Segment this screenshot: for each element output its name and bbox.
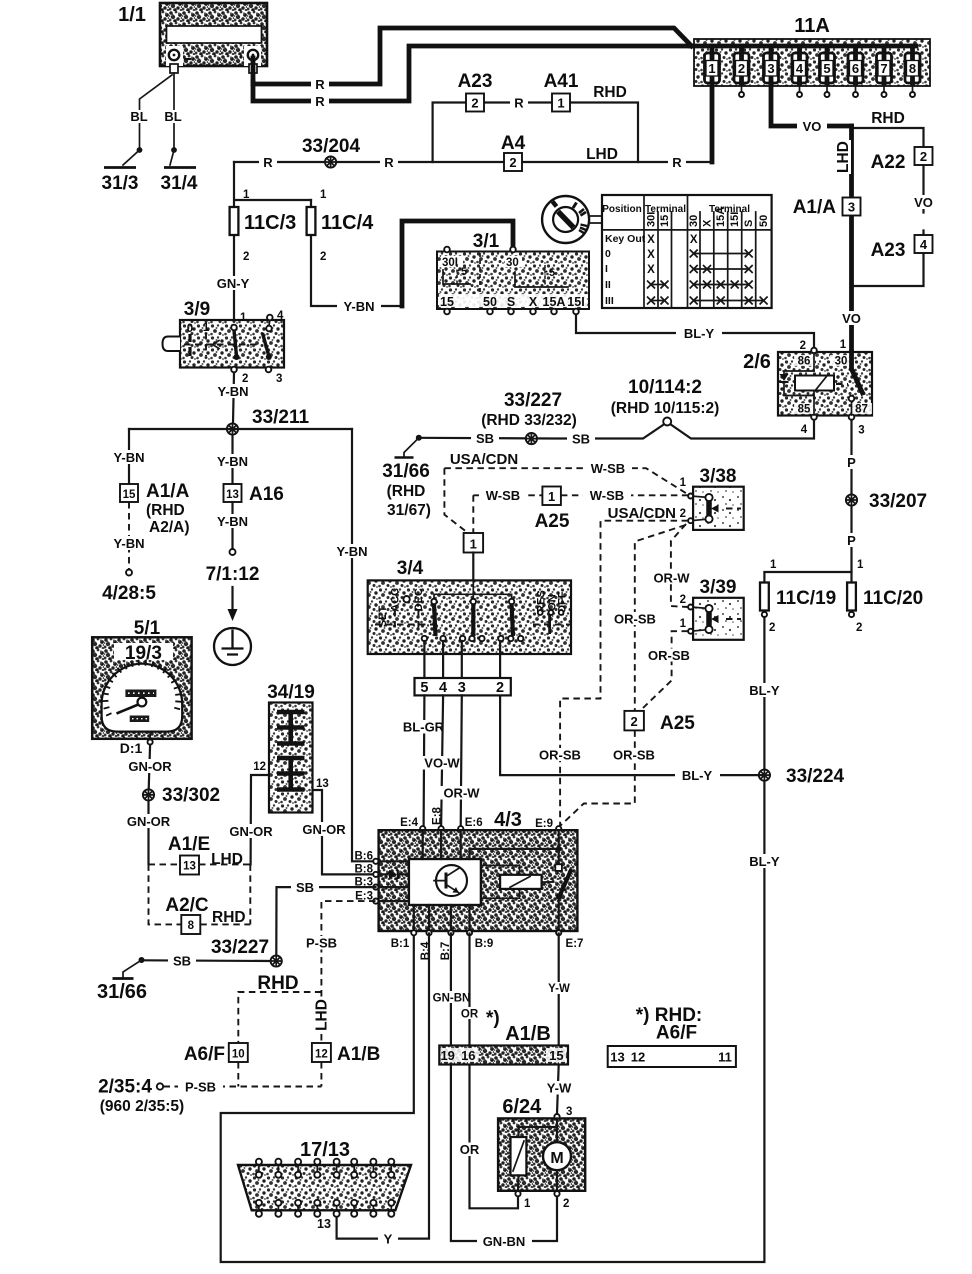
svg-text:A1/A: A1/A [793,197,837,218]
splice 33/302 [143,789,154,800]
switch 3/39 [680,577,744,640]
svg-text:13: 13 [317,1217,331,1231]
table contact lines row II [651,284,665,286]
svg-text:87: 87 [855,404,868,416]
svg-text:2: 2 [856,622,862,634]
wire A23/A41 RHD branch [433,103,638,163]
svg-text:LHD: LHD [586,146,618,163]
wire OR-SB A25 pin 2 to E:9 [561,730,635,825]
wire battery positive R feed [253,28,692,84]
svg-text:33/227: 33/227 [211,937,269,958]
shift interlock 34/19 [253,682,329,813]
svg-text:11C/20: 11C/20 [863,588,923,609]
svg-text:D:1: D:1 [120,740,143,756]
ground 31/66 upper [416,435,422,441]
wire BL-Y from 15I to relay 86 [576,315,814,350]
svg-text:RHD: RHD [593,84,627,101]
wire VO LHD thick feed [849,126,854,352]
pin of 17/13 [314,1159,320,1217]
svg-text:R: R [263,155,273,170]
svg-text:50: 50 [483,295,497,309]
svg-text:4: 4 [801,424,808,436]
cruise control module 4/3 [379,806,578,931]
svg-text:B:4: B:4 [420,941,432,960]
wires 3/4 to connector strip [424,641,500,678]
svg-text:2: 2 [630,714,637,729]
svg-text:7: 7 [880,61,887,76]
svg-text:Y-W: Y-W [547,1081,572,1096]
pin of 17/13 [275,1159,281,1217]
svg-text:BL-GR: BL-GR [403,720,445,735]
splice 33/211 [227,423,238,434]
svg-text:R: R [384,155,394,170]
svg-text:19: 19 [440,1048,454,1063]
svg-text:2: 2 [769,622,775,634]
svg-text:30I: 30I [442,257,458,269]
svg-text:1: 1 [524,1198,531,1210]
cruise control switch 3/4 [368,558,571,654]
splice 33/204 [325,156,336,167]
wire BL-Y long loop to B:1 [221,617,765,1262]
svg-text:3/9: 3/9 [184,299,210,320]
wire OR-SB 3/38 to A25 pin 2 [635,525,686,711]
svg-text:A22: A22 [871,152,906,173]
wire GN-Y [212,276,254,290]
svg-text:GN-OR: GN-OR [302,822,346,837]
ground symbol circle [214,628,251,665]
svg-text:33/302: 33/302 [162,785,220,806]
svg-text:A23: A23 [871,240,906,261]
svg-text:13: 13 [183,861,196,873]
svg-text:S: S [507,295,515,309]
wire Y-W from E:7 to 6/24 pin 3 [557,934,559,1115]
svg-text:E:9: E:9 [535,818,553,830]
wire Y-BN 3/9 to splice [233,373,234,424]
wire from connector 1 into 3/4 [472,553,474,581]
svg-text:13: 13 [610,1050,624,1065]
pin of 17/13 [295,1159,301,1217]
svg-text:W-SB: W-SB [486,488,520,503]
svg-text:2: 2 [800,340,806,352]
svg-text:Y-W: Y-W [548,983,570,995]
svg-text:A23: A23 [458,71,493,92]
svg-text:VO-W: VO-W [424,756,460,771]
svg-text:85: 85 [798,404,811,416]
splice 33/227 (RHD 33/232) [526,433,537,444]
svg-text:3: 3 [566,1106,572,1118]
pins bottom of 4/3 [411,930,416,935]
svg-text:X: X [647,264,655,276]
svg-text:R: R [315,77,325,92]
svg-text:B:6: B:6 [354,851,373,863]
svg-text:31/3: 31/3 [102,173,139,194]
wire SB from B:3 to splice 33/227 [276,887,375,955]
wire BL-Y horizontal from 3/4 pin 2 [500,695,764,775]
svg-text:5: 5 [461,266,467,278]
wire P relay 87 down [850,420,852,572]
svg-text:16: 16 [461,1048,475,1063]
svg-text:33/207: 33/207 [869,491,927,512]
svg-text:LHD: LHD [835,141,852,173]
svg-text:LHD: LHD [211,851,243,868]
svg-text:2: 2 [320,251,326,263]
svg-text:86: 86 [798,356,811,368]
svg-text:GN-BN: GN-BN [483,1234,526,1249]
svg-text:6/24: 6/24 [502,1096,542,1118]
wire BL negative leads [140,73,175,150]
wire VO RHD branch to A22/A23 [852,128,924,286]
wire BL-GR pin5 to E:4 [423,695,426,828]
svg-text:P-SB: P-SB [306,936,337,951]
svg-text:12: 12 [315,1049,328,1061]
svg-text:SB: SB [572,432,590,447]
svg-text:P: P [847,533,856,548]
svg-text:BL-Y: BL-Y [682,768,713,783]
svg-text:GN-OR: GN-OR [128,759,172,774]
svg-text:RHD: RHD [257,973,298,994]
table contact lines row III [651,300,665,302]
fuse 6 of 11A [848,46,863,97]
svg-text:A6/F: A6/F [656,1023,697,1044]
pin of 17/13 [388,1159,394,1217]
svg-text:3: 3 [276,373,282,385]
relay 2/6 [743,339,872,437]
svg-text:(RHD 33/232): (RHD 33/232) [481,412,577,429]
wire GN-OR to junction [147,801,149,864]
svg-text:19/3: 19/3 [125,643,162,664]
svg-text:B:9: B:9 [475,938,494,950]
wire W-SB via A25 [473,495,542,533]
fuse 7 of 11A [877,46,892,97]
wire GN-OR from 34/19 pin 13 to B:8 [313,790,376,874]
svg-text:1: 1 [320,189,327,201]
svg-text:BL-Y: BL-Y [749,683,780,698]
svg-text:SB: SB [173,954,191,969]
svg-text:3/4: 3/4 [397,558,424,579]
svg-text:5/1: 5/1 [134,618,161,639]
svg-text:(RHD: (RHD [387,483,426,500]
svg-text:30: 30 [506,257,519,269]
connector A1/E pin 13 LHD [149,863,181,865]
svg-text:2: 2 [563,1198,569,1210]
ignition switch 3/1 [437,231,589,314]
svg-text:E:8: E:8 [432,806,444,825]
table contact lines row I [694,268,749,270]
svg-text:30I: 30I [646,212,658,227]
svg-text:3: 3 [848,200,855,215]
svg-text:X: X [529,295,538,309]
svg-text:OR-SB: OR-SB [539,748,581,763]
svg-text:GN-OR: GN-OR [229,824,273,839]
svg-text:A1/B: A1/B [505,1023,551,1045]
svg-text:A1/A: A1/A [146,481,190,502]
ignition key symbol [542,196,602,243]
ignition position table [602,195,772,308]
branch Y-BN to 4/3 B:6 [352,429,376,861]
svg-text:33/211: 33/211 [252,407,309,428]
svg-text:15: 15 [123,489,136,501]
ground 31/66 lower [123,960,142,978]
svg-text:8: 8 [909,61,916,76]
svg-text:SB: SB [476,431,494,446]
svg-text:15: 15 [549,1048,563,1063]
svg-text:2: 2 [920,149,927,164]
svg-text:30: 30 [835,356,848,368]
svg-text:SB: SB [296,880,314,895]
fuse 11C/3 [234,162,311,325]
wire Y-BN distribution [129,428,352,430]
connector 1 above 3/4 [464,533,484,553]
svg-text:Y-BN: Y-BN [113,450,144,465]
svg-text:I: I [605,263,608,275]
svg-text:(RHD 10/115:2): (RHD 10/115:2) [611,400,720,417]
svg-text:BL: BL [164,109,181,124]
svg-text:4/3: 4/3 [494,809,522,831]
svg-text:11C/4: 11C/4 [321,212,374,234]
svg-text:3/39: 3/39 [700,577,737,598]
svg-text:31/4: 31/4 [161,173,198,194]
wire Y from 17/13 pin 13 to B:4 [337,934,429,1239]
fuse box 11A [690,15,930,86]
svg-text:15: 15 [659,215,671,227]
svg-text:15I: 15I [729,212,741,227]
splice 33/227 lower [271,955,282,966]
svg-text:GN-Y: GN-Y [217,276,250,291]
svg-text:VO: VO [914,195,933,210]
svg-text:X: X [702,219,714,227]
svg-text:33/224: 33/224 [786,766,845,787]
svg-text:X: X [647,249,655,261]
svg-text:S: S [743,220,755,227]
pin of 17/13 [351,1159,357,1217]
svg-text:13: 13 [316,778,329,790]
svg-text:A16: A16 [249,484,284,505]
svg-text:ACC: ACC [389,588,401,612]
table contact lines row 0 [694,253,749,255]
svg-text:Y-BN: Y-BN [217,454,248,469]
wire GN-BN from B:7 to 6/24 pin 2 [451,934,557,1242]
svg-text:1: 1 [243,189,250,201]
branch A16 pin 13 [231,435,233,484]
svg-text:A2/A): A2/A) [149,519,189,536]
svg-text:30: 30 [688,215,700,227]
svg-text:15A: 15A [715,207,727,227]
svg-text:2: 2 [680,508,686,520]
svg-text:0: 0 [187,323,193,335]
svg-text:11C/19: 11C/19 [776,588,836,609]
svg-text:2: 2 [738,61,745,76]
svg-text:X: X [690,234,698,246]
svg-text:A2/C: A2/C [165,895,209,916]
svg-text:4: 4 [920,237,928,252]
svg-text:2: 2 [496,680,504,696]
svg-text:A1/E: A1/E [168,834,210,855]
svg-text:W-SB: W-SB [590,488,624,503]
svg-text:Key Out: Key Out [605,233,646,245]
pins left of 4/3 [373,859,378,864]
svg-text:15A: 15A [543,295,566,309]
connector A23 pin 2 [466,94,484,112]
svg-text:11A: 11A [794,15,830,37]
svg-text:A4: A4 [501,133,526,154]
svg-text:1: 1 [557,96,564,111]
svg-text:B:8: B:8 [354,864,373,876]
svg-text:1: 1 [857,559,864,571]
svg-text:4/28:5: 4/28:5 [102,583,156,604]
svg-text:A25: A25 [660,713,695,734]
svg-text:GN-BN: GN-BN [433,993,471,1005]
ground 31/4 [170,150,174,165]
svg-text:4: 4 [277,310,284,322]
svg-text:15: 15 [440,295,454,309]
fuse 4 of 11A [792,46,807,97]
svg-text:5: 5 [420,680,428,696]
svg-text:III: III [605,295,614,307]
svg-text:RHD: RHD [871,110,905,127]
svg-text:2: 2 [680,594,686,606]
ground 31/3 [123,150,140,165]
node 2/35:4 [157,1083,163,1089]
svg-text:P-SB: P-SB [185,1080,216,1095]
svg-text:B:1: B:1 [391,938,410,950]
svg-text:4: 4 [796,61,804,76]
svg-text:Y-BN: Y-BN [217,514,248,529]
svg-text:(960 2/35:5): (960 2/35:5) [100,1098,184,1115]
fuse 5 of 11A [820,46,835,97]
svg-text:4: 4 [439,680,447,696]
svg-text:3: 3 [767,61,774,76]
svg-text:OR-W: OR-W [653,571,690,586]
wire GN-OR from D:1 [149,745,150,790]
svg-text:W-SB: W-SB [591,461,625,476]
instrument cluster 5/1 speedometer 19/3 [92,618,191,756]
svg-text:5: 5 [823,61,830,76]
svg-text:10/114:2: 10/114:2 [628,377,702,398]
svg-text:DEC: DEC [413,588,425,611]
svg-text:11C/3: 11C/3 [244,212,296,234]
wire SB relay 85 to ground [420,420,814,439]
fuse 8 of 11A [905,46,920,97]
svg-text:5: 5 [549,267,555,279]
svg-text:1: 1 [680,477,687,489]
connector A25 pin 2 [624,711,644,731]
fuse 11C/19 [764,572,851,583]
svg-text:E:7: E:7 [566,938,584,950]
connector strip 5 4 3 2 [415,678,511,695]
svg-text:R: R [514,96,524,111]
svg-text:E:4: E:4 [400,817,419,829]
svg-text:X: X [647,234,655,246]
svg-text:11: 11 [718,1050,732,1065]
svg-text:Y-BN: Y-BN [217,384,248,399]
svg-text:II: II [605,279,611,291]
svg-text:BL: BL [130,109,147,124]
svg-text:OR-SB: OR-SB [614,612,656,627]
wire OR-W pin3 to E:6 [461,695,462,828]
svg-text:1: 1 [680,618,687,630]
wire VO-W pin4 to E:8 [441,695,443,828]
wire SB to ground 31/66 [144,959,271,962]
svg-text:GN-OR: GN-OR [127,814,171,829]
svg-text:17/13: 17/13 [300,1139,350,1161]
svg-text:A41: A41 [544,71,579,92]
svg-text:A6/F: A6/F [184,1044,225,1065]
svg-text:33/227: 33/227 [504,390,562,411]
svg-text:1: 1 [708,61,715,76]
svg-text:(RHD: (RHD [146,502,185,519]
svg-text:Y-BN: Y-BN [113,536,144,551]
pin of 17/13 [256,1159,262,1217]
pin of 17/13 [334,1159,340,1217]
svg-text:1: 1 [770,559,777,571]
wire P-SB dashed from E:3 [321,901,375,1043]
fuse 11C/4 [311,200,402,306]
svg-text:M: M [550,1150,563,1167]
svg-text:3: 3 [458,680,466,696]
svg-text:VO: VO [803,119,822,134]
svg-text:3/38: 3/38 [700,466,737,487]
fuse 1 of 11A [705,46,720,83]
svg-text:1: 1 [548,489,555,504]
wire OR-SB 3/39 pin 1 to A25 pin 2 [643,631,688,708]
svg-text:12: 12 [253,761,266,773]
svg-text:BL-Y: BL-Y [749,854,780,869]
svg-text:1: 1 [203,322,210,334]
switch 3/9 [163,299,285,385]
svg-text:A25: A25 [535,511,570,532]
svg-text:Y-BN: Y-BN [343,299,374,314]
wire P-SB bottom to 2/35:4 [164,1062,322,1087]
svg-text:USA/CDN: USA/CDN [608,505,676,522]
svg-text:1/1: 1/1 [118,4,146,26]
svg-text:12: 12 [631,1050,645,1065]
wire GN-OR from 34/19 pin 12 [251,775,269,864]
wire OR from B:9 to 6/24 pin 1 [470,934,519,1209]
splice 33/207 [846,494,857,505]
connector A2/C pin 8 RHD [149,864,182,924]
svg-text:R: R [672,155,682,170]
svg-text:Y: Y [384,1232,393,1247]
svg-text:1: 1 [470,537,477,552]
connector A25 pin 1 [542,487,561,506]
svg-text:50: 50 [758,215,770,227]
svg-text:R: R [315,94,325,109]
fuse 2 of 11A [734,46,749,97]
svg-text:USA/CDN: USA/CDN [450,451,518,468]
svg-text:33/204: 33/204 [302,136,361,157]
svg-text:7/1:12: 7/1:12 [206,564,260,585]
svg-text:VO: VO [842,311,861,326]
connector A1/B pin 12 [312,1043,331,1062]
svg-text:13: 13 [226,489,239,501]
wire R main line [234,161,711,163]
svg-text:2/6: 2/6 [743,351,771,373]
svg-text:A1/B: A1/B [337,1044,380,1065]
battery 1/1 [118,3,267,73]
svg-text:OR-SB: OR-SB [613,748,655,763]
wire RHD dashed branch [238,992,321,1043]
svg-text:2/35:4: 2/35:4 [98,1077,152,1098]
svg-text:OR-W: OR-W [443,786,480,801]
servo motor 6/24 [498,1096,585,1210]
svg-text:3/1: 3/1 [473,231,500,252]
svg-text:OR: OR [461,1009,479,1021]
svg-text:BL-Y: BL-Y [684,326,715,341]
wire OR-W 3/38 to 3/39 pin 2 [671,524,688,607]
svg-text:8: 8 [188,920,195,932]
svg-text:34/19: 34/19 [267,682,315,703]
wire USA/CDN from 3/38 pin 2 to E:9 [560,521,688,826]
